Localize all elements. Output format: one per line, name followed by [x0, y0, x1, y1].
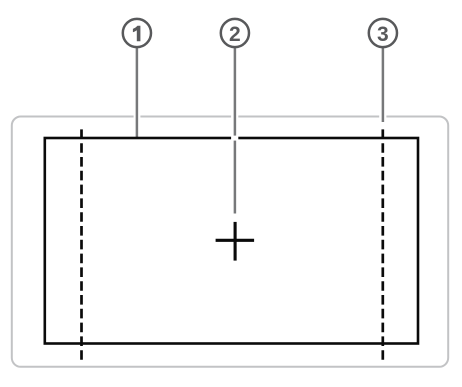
callout circle 2 [221, 19, 249, 47]
callout circle 3 [369, 19, 397, 47]
callout circle 1 [123, 19, 151, 47]
center cross [216, 222, 255, 261]
leader line 2 [234, 46, 237, 214]
frame gap at leader 2 [231, 136, 238, 141]
svg-text:2: 2 [229, 23, 241, 46]
border gap at leader 3 [379, 114, 386, 119]
leader line 3 [382, 46, 385, 122]
border gap at leader 1 [134, 114, 141, 119]
border gap at leader 2 [231, 114, 238, 119]
callout number 1 [133, 26, 141, 42]
dashed line right [381, 129, 384, 360]
leader line 1 [136, 46, 139, 137]
dashed line left [80, 129, 83, 360]
projection area rectangle [45, 138, 418, 344]
svg-text:3: 3 [377, 23, 389, 46]
outer screen frame [12, 117, 448, 367]
